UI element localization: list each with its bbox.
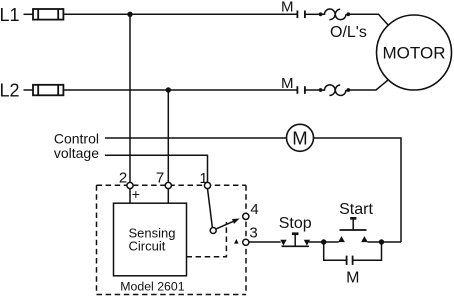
contact M main pole 1 (normally open) [297,11,305,19]
svg-text:1: 1 [199,170,207,187]
junction dot left of overload row 2 [319,88,323,92]
dashed enclosure Model 2601 [97,185,247,294]
junction dot right of overload row 2 [346,88,350,92]
wire aux branch left drop [324,242,346,260]
svg-text:MOTOR: MOTOR [383,44,446,63]
contact M main pole 2 (normally open) [297,86,305,94]
wire contact to overload (row 2) [305,89,320,91]
junction dot left of overload row 1 [319,12,323,16]
overload heater OL2 (thermal overload, L2 pole) [321,85,348,96]
svg-text:Start: Start [339,201,373,218]
wire terminal 3 to stop button [249,241,281,243]
terminal 1 [204,182,210,188]
switch blade arrowhead [232,219,240,224]
wire vertical L1 junction down to terminal 2 [129,14,131,182]
svg-text:O/L's: O/L's [330,24,367,41]
junction dot right of overload row 1 [346,12,350,16]
svg-text:Stop: Stop [279,215,312,232]
wire overload to motor (row 1) [350,14,388,24]
contact M auxiliary (holding, normally open) [347,256,353,265]
svg-text:4: 4 [250,201,258,218]
mechanical link (dashed) sensing circuit to switch blade [187,222,227,257]
svg-text:Model 2601: Model 2601 [120,280,184,294]
svg-text:2: 2 [119,170,127,187]
wire L1 to contact M [63,13,296,15]
wire control voltage (top) to coil M [105,137,287,139]
wire vertical L2 junction down to terminal 7 [167,90,169,183]
wire terminal 1 to switch pivot [208,189,213,228]
switch blade toward terminal 4 [216,221,233,229]
pushbutton Start (normally open) [338,217,368,242]
pushbutton Stop (normally closed) [280,232,310,246]
sensing circuit box U1 [114,203,187,276]
svg-text:voltage: voltage [54,145,99,161]
coil M (motor starter coil) [287,124,314,151]
wire terminal 7 to sensing circuit [167,189,169,204]
overload heater OL1 (thermal overload, L1 pole) [321,9,348,20]
terminal 2 [127,182,133,188]
wire L1 lead [24,13,34,15]
terminal 3 [243,239,249,245]
wire L2 lead [24,89,34,91]
svg-text:Control: Control [54,130,99,146]
wire aux branch right rise [353,242,382,260]
junction L2 tap to terminal 7 [166,87,171,92]
wire control voltage (bottom) to terminal 1 [105,155,208,182]
wire L2 to contact M [63,89,296,91]
svg-text:M: M [281,0,294,16]
wire contact to overload (row 1) [305,13,320,15]
svg-text:L1: L1 [0,5,20,25]
svg-text:M: M [346,270,359,287]
svg-text:M: M [281,75,294,92]
svg-text:3: 3 [249,225,257,242]
wire coil M to right rail [314,138,402,242]
svg-text:L2: L2 [0,81,20,101]
junction dot start/aux right [379,239,384,244]
terminal 4 [243,213,249,219]
svg-text:+: + [132,186,140,202]
wire stop to junction [309,241,339,243]
junction dot stop/start/aux [321,239,326,244]
fuse F2 (L2 line) [33,85,63,96]
svg-text:7: 7 [156,170,164,187]
fuse F1 (L1 line) [33,9,63,20]
wire terminal 2 to sensing circuit [129,189,131,204]
switch pivot [210,228,216,234]
terminal 7 [165,182,171,188]
junction L1 tap to terminal 2 [127,12,132,17]
motor M1 circle [377,15,452,90]
svg-text:Circuit: Circuit [129,238,166,253]
svg-text:M: M [292,128,307,149]
wire overload to motor (row 2) [350,80,389,90]
fixed contact marker at terminal 3 [234,239,239,244]
wire start to right rail [368,241,402,243]
